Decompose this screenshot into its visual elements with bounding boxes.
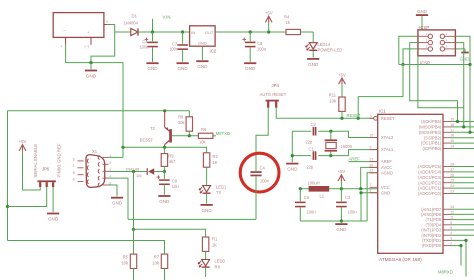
ground analog rail: [340, 221, 342, 223]
svg-text:+5V: +5V: [19, 139, 27, 144]
svg-text:16000: 16000: [341, 144, 353, 149]
svg-text:14: 14: [450, 145, 454, 149]
svg-text:+5V: +5V: [338, 72, 346, 77]
wire RXD pin2 down to M8RXD: [451, 246, 461, 266]
svg-text:C4: C4: [260, 166, 266, 171]
junction RX divider node: [132, 228, 135, 231]
svg-text:AUTO RESET: AUTO RESET: [260, 92, 287, 97]
wire DB9 pin3 line through D5: [109, 171, 147, 173]
svg-text:POWER-LED: POWER-LED: [318, 48, 343, 53]
header ICSP (3x2): [418, 30, 456, 56]
wire +5V to JP6 pin1: [23, 187, 41, 190]
capacitor C8 100u: [249, 32, 251, 41]
svg-text:C7: C7: [172, 41, 178, 46]
svg-text:V.IN: V.IN: [163, 14, 171, 19]
transistor T2 BC557: [164, 111, 166, 128]
capacitor C7 100n: [182, 32, 184, 44]
svg-text:AVCC: AVCC: [381, 165, 392, 170]
ground X1 pin5: [111, 197, 123, 199]
junction R11 on RESET: [340, 117, 343, 120]
svg-text:LED0: LED0: [215, 258, 226, 263]
resistor R8 10k: [188, 111, 190, 117]
svg-text:22p: 22p: [306, 140, 314, 145]
svg-text:JP6: JP6: [42, 166, 50, 171]
resistor R1 1K: [202, 237, 208, 251]
wire RESET net: [276, 117, 373, 119]
wire JP4 left pin to C13: [256, 108, 268, 171]
power connector X2 (DC power jack): [53, 13, 104, 38]
svg-text:10k: 10k: [152, 261, 160, 266]
svg-text:2: 2: [109, 161, 111, 165]
svg-text:D5: D5: [137, 173, 143, 178]
X1 right pins 1-5: [103, 156, 109, 158]
X1 left pins 6-9: [78, 160, 84, 162]
svg-text:D1: D1: [132, 14, 138, 19]
svg-text:(ADC2/PC2): (ADC2/PC2): [418, 180, 442, 185]
svg-text:R6: R6: [201, 127, 207, 132]
svg-text:IC1: IC1: [379, 109, 386, 114]
junction ICSP reset on RESET: [357, 117, 360, 120]
svg-text:10k: 10k: [329, 99, 337, 104]
svg-text:18: 18: [450, 123, 454, 127]
svg-text:R8: R8: [178, 115, 184, 120]
svg-text:10u: 10u: [172, 184, 179, 189]
svg-text:GND: GND: [381, 190, 390, 195]
svg-text:7: 7: [73, 164, 75, 168]
svg-text:ICSP: ICSP: [419, 25, 429, 30]
capacitor C2 22p: [311, 130, 318, 133]
junction ground rail: [340, 219, 343, 222]
wire ICSP box corner to pin18 route: [418, 56, 464, 108]
junction T2 collector: [163, 146, 166, 149]
svg-text:AREF: AREF: [381, 159, 393, 164]
wire JP6 pin3 to ground: [52, 187, 54, 212]
svg-text:22: 22: [370, 169, 374, 173]
wire JP4 right pin to RESET: [275, 108, 277, 119]
svg-text:C6: C6: [304, 195, 310, 200]
wire XTAL1 to crystal bottom: [292, 150, 377, 156]
wire left loop bottom to R7: [8, 241, 165, 255]
LED LED14 POWER-LED: [312, 32, 314, 42]
wire ICSP pin5 RESET down: [403, 49, 418, 65]
wire R6 to M8TXD label: [213, 135, 216, 137]
diode D5 1N4148: [148, 168, 154, 175]
junction crystal bottom: [329, 154, 332, 157]
svg-text:C2: C2: [311, 122, 317, 127]
svg-text:19: 19: [450, 118, 454, 122]
svg-text:27: 27: [450, 168, 454, 172]
svg-text:100uH: 100uH: [308, 180, 320, 185]
power +5V arrow for R11: [339, 78, 346, 84]
svg-text:15: 15: [450, 139, 454, 143]
svg-text:L1: L1: [320, 194, 325, 199]
wire analog ground rail: [300, 220, 367, 222]
wire power jack pin3 to diode D1: [91, 25, 115, 63]
wire X1 pin3 riser down: [133, 171, 135, 229]
svg-text:6: 6: [73, 157, 75, 161]
connector X1 DB9 female: [86, 155, 105, 188]
svg-text:(ADC3/PC3): (ADC3/PC3): [418, 175, 442, 180]
ground C9: [163, 185, 165, 195]
svg-text:21: 21: [370, 158, 374, 162]
svg-text:AREF: AREF: [349, 156, 361, 161]
annotation highlight circle: [240, 153, 279, 192]
resistor R6 10k: [198, 133, 213, 138]
svg-text:10k: 10k: [121, 261, 129, 266]
capacitor C13 100n autoreset (circled): [250, 171, 261, 173]
svg-text:R11: R11: [329, 93, 337, 98]
svg-text:4: 4: [450, 231, 452, 235]
svg-text:SERIAL ENABLE: SERIAL ENABLE: [33, 144, 38, 178]
LED LED1 TX: [206, 167, 208, 185]
wire X1 pin5 to ground: [109, 185, 118, 196]
junction MISO pin18: [462, 125, 465, 128]
svg-text:1K: 1K: [212, 243, 217, 248]
wire +5V serial rail (left loop top): [8, 110, 190, 112]
svg-text:7: 7: [370, 183, 372, 187]
svg-text:AGND: AGND: [381, 170, 393, 175]
svg-text:100n: 100n: [307, 210, 317, 215]
wire ICSP pin1 MISO down-left: [399, 36, 418, 64]
svg-text:GND: GND: [197, 64, 208, 69]
junction C8 on +5V rail: [249, 30, 252, 33]
wire reset net to RESET line: [358, 65, 403, 119]
svg-text:10: 10: [370, 133, 374, 137]
wire DTR bottom run to C13: [128, 218, 256, 220]
svg-text:23: 23: [450, 190, 454, 194]
svg-text:XTAL2: XTAL2: [381, 135, 394, 140]
svg-text:M8RXD: M8RXD: [438, 270, 453, 275]
svg-text:JP4: JP4: [272, 83, 280, 88]
svg-text:24: 24: [450, 184, 454, 188]
svg-text:IN: IN: [191, 30, 195, 35]
wire ICSP pin3 SCK to IC pin19: [410, 43, 458, 122]
svg-text:1K: 1K: [213, 160, 218, 165]
svg-text:20: 20: [370, 163, 374, 167]
svg-text:M8TXD: M8TXD: [216, 131, 230, 136]
svg-text:VCC: VCC: [381, 185, 390, 190]
junction collector line at DB9 riser: [121, 146, 124, 149]
svg-text:10k: 10k: [178, 120, 186, 125]
capacitor C6 100n: [299, 189, 301, 202]
ground crystal caps: [291, 131, 293, 162]
junction AVCC on VCC rail: [359, 187, 362, 190]
resistor R7 10k: [161, 254, 167, 268]
wire MISO bus to IC pin17 column: [399, 65, 470, 133]
ground C8: [249, 48, 251, 62]
svg-text:3: 3: [450, 236, 452, 240]
crystal Q1 16MHz: [330, 131, 332, 139]
svg-text:+5V: +5V: [338, 169, 346, 174]
resistor R9 4k7: [163, 147, 165, 153]
svg-text:C9: C9: [172, 179, 178, 184]
resistor R2 1K: [203, 153, 209, 167]
svg-text:PIN6/1 GND REF: PIN6/1 GND REF: [57, 143, 62, 177]
svg-text:3: 3: [109, 168, 111, 172]
svg-text:GND: GND: [201, 208, 212, 213]
junction V.IN at C4: [151, 30, 154, 33]
junction power ground: [89, 61, 92, 64]
ground LED14: [312, 51, 314, 58]
svg-text:22p: 22p: [307, 164, 315, 169]
wire AREF label: [349, 161, 378, 163]
svg-text:GND: GND: [198, 41, 207, 46]
svg-text:2: 2: [450, 242, 452, 246]
power +5V arrow JP6: [19, 145, 26, 151]
wire power jack minus pins to ground rail: [65, 45, 67, 63]
svg-text:10k: 10k: [199, 140, 207, 145]
svg-text:1N4004: 1N4004: [124, 21, 139, 26]
ground JP6: [47, 213, 59, 215]
svg-text:(MISO/PB4): (MISO/PB4): [419, 125, 442, 130]
svg-text:GND: GND: [177, 66, 188, 71]
capacitor C1 22p: [311, 154, 318, 157]
ground above ICSP: [416, 14, 428, 16]
power +5V arrow at L1: [340, 187, 343, 190]
op IC1 ATMEGA8 box: [378, 114, 443, 253]
svg-text:LED1: LED1: [216, 184, 227, 189]
svg-text:R7: R7: [154, 254, 160, 259]
svg-text:GND: GND: [159, 199, 170, 204]
svg-text:GND: GND: [147, 66, 158, 71]
junction ICSP reset net: [401, 63, 404, 66]
svg-text:(ADC5/PC5): (ADC5/PC5): [418, 164, 442, 169]
wire XTAL2 to crystal top: [292, 131, 377, 137]
svg-text:C3: C3: [345, 195, 351, 200]
svg-text:(ADC0/PC0): (ADC0/PC0): [418, 191, 442, 196]
svg-text:8: 8: [370, 189, 372, 193]
wire IC2 output +5V rail: [215, 31, 286, 33]
junction R8 bottom: [188, 134, 191, 137]
wire JP6 pin2 to loop: [8, 187, 47, 206]
svg-text:RX: RX: [215, 264, 221, 269]
svg-text:(MOSI/PB3): (MOSI/PB3): [419, 130, 442, 135]
node V.IN label stub: [152, 19, 154, 32]
ground power jack: [90, 63, 92, 70]
svg-text:100n: 100n: [260, 178, 270, 183]
svg-text:R2: R2: [213, 154, 219, 159]
junction SCK pin19: [456, 120, 459, 123]
svg-text:(SS/PB2): (SS/PB2): [424, 135, 442, 140]
svg-text:8: 8: [73, 171, 75, 175]
svg-text:R9: R9: [168, 153, 174, 158]
svg-text:TX: TX: [216, 190, 222, 195]
inductor L1 100uH: [309, 186, 330, 192]
svg-text:5: 5: [450, 226, 452, 230]
svg-text:GND: GND: [287, 167, 298, 172]
svg-text:(ADC1/PC1): (ADC1/PC1): [418, 186, 442, 191]
svg-text:GND: GND: [308, 62, 319, 67]
svg-text:GND: GND: [48, 217, 59, 222]
wire T2 base to R6: [172, 135, 199, 137]
resistor R11 10k pull-up: [339, 97, 345, 111]
resistor R5 10k: [133, 229, 135, 254]
wire VCC rail through L1: [300, 188, 377, 190]
wire X1 pin4 DTR to autoreset line: [109, 178, 129, 219]
wire IC GND pin to ground rail: [361, 193, 378, 221]
wire D1 cathode to IC2 input (V.IN rail): [138, 31, 190, 33]
svg-text:26: 26: [450, 173, 454, 177]
power +5V arrow on rail: [267, 30, 270, 33]
svg-text:−: −: [63, 28, 66, 33]
svg-text:(ADC4/PC4): (ADC4/PC4): [418, 170, 442, 175]
wire TXD pin3 down: [451, 240, 466, 276]
svg-text:(OC1/PB1): (OC1/PB1): [421, 141, 442, 146]
wire C13 down to DTR line: [255, 177, 257, 220]
ground LED1: [206, 194, 208, 204]
wire ICSP pin2 riser right: [455, 36, 470, 64]
wires IC1 right pins to sheet edge: [451, 121, 474, 123]
svg-text:6: 6: [450, 221, 452, 225]
svg-text:100u: 100u: [139, 45, 148, 50]
wire left loop vertical: [7, 111, 9, 241]
junction R9 bottom: [163, 170, 166, 173]
junction C6 on rail: [299, 187, 302, 190]
junction C7 input rail: [181, 30, 184, 33]
capacitor C3 100n: [340, 189, 342, 202]
svg-text:R4: R4: [284, 15, 290, 20]
wire X1 pin1 stub to gnd-ref riser: [109, 156, 124, 158]
svg-text:R1: R1: [212, 237, 218, 242]
svg-text:1: 1: [370, 114, 372, 118]
capacitor C9 10u: [163, 172, 165, 179]
svg-text:9: 9: [370, 146, 372, 150]
wire ICSP pin4 to IC pin18 column: [455, 43, 463, 127]
svg-text:GND: GND: [336, 227, 347, 232]
ground C7: [182, 50, 184, 62]
junction JP6 tap on loop: [6, 205, 9, 208]
svg-text:BC557: BC557: [140, 138, 153, 143]
svg-text:(−): (−): [85, 45, 89, 49]
wire AGND down to ground rail: [367, 173, 378, 221]
wire RX node to R1: [134, 229, 206, 237]
svg-text:(ICP/PB0): (ICP/PB0): [423, 146, 442, 151]
diode D1 1N4004: [131, 28, 138, 35]
svg-text:+5V: +5V: [265, 11, 273, 16]
svg-text:C8: C8: [257, 41, 263, 46]
wire jack ground to DB9 pin1 (GND REF): [122, 63, 124, 158]
svg-text:25: 25: [450, 179, 454, 183]
svg-text:GND: GND: [112, 201, 123, 206]
wire AVCC to +5V rail: [361, 167, 378, 188]
pin RESET with inversion bubble: [374, 116, 378, 120]
svg-text:RESET: RESET: [381, 116, 395, 121]
svg-text:9: 9: [73, 178, 75, 182]
svg-text:1N4148: 1N4148: [125, 166, 140, 171]
svg-text:12: 12: [450, 210, 454, 214]
wire T2 collector line to R2: [123, 147, 207, 153]
svg-text:C1: C1: [309, 146, 315, 151]
svg-text:+: +: [61, 45, 63, 49]
LED LED0 RX: [205, 251, 207, 259]
svg-text:28: 28: [450, 163, 454, 167]
svg-text:13: 13: [450, 205, 454, 209]
svg-text:GND: GND: [460, 57, 470, 62]
svg-text:IC2: IC2: [210, 48, 217, 53]
svg-text:ATMEGA8 (OR 168): ATMEGA8 (OR 168): [379, 257, 422, 262]
junction pin3 riser: [132, 170, 135, 173]
voltage regulator IC2 7805: [190, 26, 216, 46]
svg-text:GND: GND: [417, 9, 427, 14]
svg-text:11: 11: [450, 216, 454, 220]
wire R4 to LED14: [301, 31, 314, 33]
svg-text:3: 3: [106, 20, 108, 24]
svg-text:LED14: LED14: [318, 42, 331, 47]
resistor R4 1k: [286, 29, 301, 34]
ground ICSP pin6: [455, 48, 465, 50]
svg-text:X1: X1: [92, 149, 98, 154]
svg-text:4k7: 4k7: [169, 159, 176, 164]
svg-text:R5: R5: [123, 254, 129, 259]
svg-text:C4: C4: [142, 39, 148, 44]
svg-text:100u: 100u: [257, 46, 266, 51]
svg-text:100n: 100n: [169, 47, 179, 52]
svg-text:100n: 100n: [348, 210, 358, 215]
ground IC2 tab: [201, 46, 203, 60]
svg-text:(RXD)PD0: (RXD)PD0: [422, 243, 442, 248]
svg-text:GND: GND: [245, 66, 256, 71]
svg-text:(SCK/PB5): (SCK/PB5): [421, 119, 442, 124]
svg-text:OUT: OUT: [205, 30, 214, 35]
svg-text:16: 16: [450, 134, 454, 138]
svg-text:XTAL1: XTAL1: [381, 147, 394, 152]
svg-text:17: 17: [450, 128, 454, 132]
junction T2 emitter on rail: [163, 109, 166, 112]
junction MOSI pin17: [468, 131, 471, 134]
ground C4: [152, 48, 154, 62]
junction crystal top: [329, 130, 332, 133]
svg-text:T2: T2: [150, 126, 156, 131]
svg-text:GND: GND: [86, 74, 97, 79]
capacitor C4 100u: [152, 32, 154, 41]
